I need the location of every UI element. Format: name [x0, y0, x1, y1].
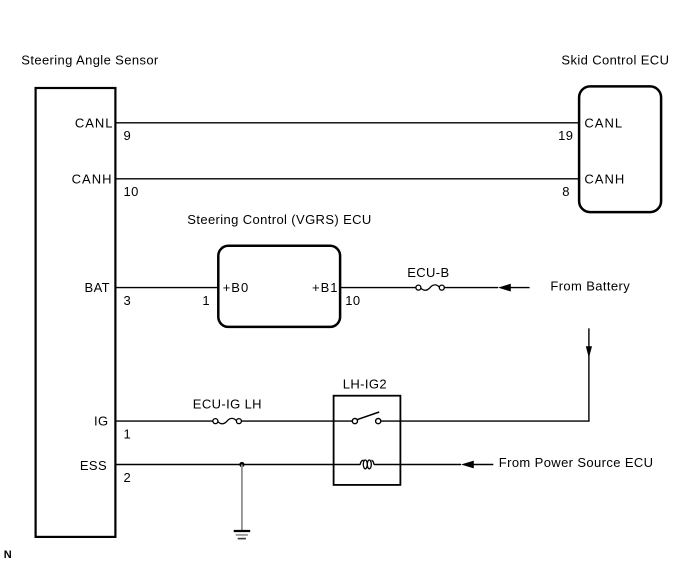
down arrow on battery feed — [586, 346, 592, 358]
svg-text:ESS: ESS — [80, 458, 107, 473]
svg-text:CANH: CANH — [584, 171, 625, 186]
svg-text:From Battery: From Battery — [550, 278, 630, 293]
svg-text:CANL: CANL — [584, 115, 623, 130]
junction dot (ESS / ground) — [239, 462, 244, 467]
svg-text:Steering Control (VGRS) ECU: Steering Control (VGRS) ECU — [187, 212, 371, 227]
arrow from battery (points left) — [498, 284, 511, 292]
svg-text:From Power Source ECU: From Power Source ECU — [499, 455, 654, 470]
relay LH-IG2 box K1 — [334, 396, 401, 485]
wire stub right of power source arrow — [474, 464, 494, 466]
svg-text:1: 1 — [124, 427, 132, 442]
wire: fuse ECU-IG LH to relay switch — [241, 420, 352, 422]
switch contacts (relay LH-IG2) — [352, 419, 381, 424]
Steering Angle Sensor box — [36, 88, 116, 537]
svg-text:3: 3 — [124, 293, 132, 308]
svg-text:2: 2 — [124, 470, 132, 485]
svg-text:IG: IG — [94, 413, 108, 428]
svg-text:1: 1 — [202, 293, 210, 308]
fuse ECU-IG LH F2 — [213, 418, 242, 423]
wire: relay coil to power source arrow — [374, 464, 461, 466]
fuse ECU-B F1 — [416, 285, 444, 290]
svg-text:BAT: BAT — [85, 280, 110, 295]
relay coil L1 — [360, 460, 374, 469]
svg-text:ECU-IG LH: ECU-IG LH — [193, 397, 262, 412]
Steering Control (VGRS) ECU box U1 — [218, 246, 340, 327]
svg-text:CANL: CANL — [75, 115, 114, 130]
wire BAT: sensor to VGRS ECU — [117, 287, 220, 289]
svg-text:Steering Angle Sensor: Steering Angle Sensor — [21, 53, 159, 68]
arrow from power source ECU (points left) — [461, 461, 474, 469]
svg-text:10: 10 — [124, 184, 139, 199]
wire stub right of battery arrow — [511, 287, 530, 289]
battery feed wire (vertical drop) — [588, 328, 590, 421]
svg-text:8: 8 — [562, 184, 570, 199]
svg-text:ECU-B: ECU-B — [407, 265, 449, 280]
wire CANL net — [117, 122, 580, 124]
wire CANH net — [117, 178, 580, 180]
Skid Control ECU box U2 — [579, 86, 661, 212]
svg-text:10: 10 — [345, 293, 360, 308]
ground stem wire — [241, 465, 243, 531]
wire: relay switch to battery feed corner — [381, 420, 589, 422]
wire: fuse ECU-B to battery arrow — [444, 287, 498, 289]
wire: VGRS +B1 to fuse ECU-B — [340, 287, 416, 289]
svg-text:Skid Control ECU: Skid Control ECU — [561, 52, 669, 67]
svg-text:+B0: +B0 — [223, 280, 250, 295]
svg-text:+B1: +B1 — [312, 280, 339, 295]
svg-text:LH-IG2: LH-IG2 — [343, 377, 387, 392]
svg-text:9: 9 — [124, 128, 132, 143]
wire ESS: sensor to relay coil — [117, 464, 361, 466]
ground symbol — [234, 531, 251, 539]
switch blade — [357, 412, 379, 420]
svg-text:CANH: CANH — [72, 171, 113, 186]
svg-text:N: N — [4, 549, 12, 561]
svg-text:19: 19 — [558, 128, 573, 143]
wire IG: sensor to fuse ECU-IG LH — [117, 420, 213, 422]
